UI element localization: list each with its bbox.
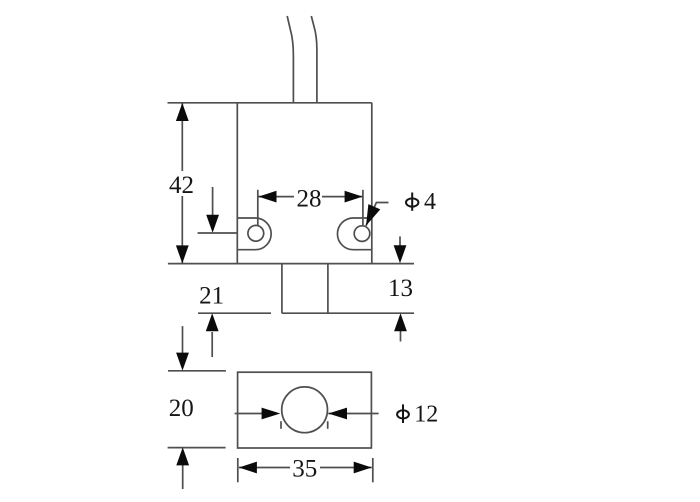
28 right arrow head [345, 191, 363, 203]
20 upper extension line [168, 370, 226, 372]
20 lower arrow tail [182, 465, 184, 489]
phi12 right arrow head [328, 408, 347, 420]
body top edge with 42-extension [168, 102, 372, 104]
phi4 leader [366, 203, 389, 226]
svg-text:35: 35 [292, 456, 317, 483]
bottom view circle phi12 [282, 387, 328, 433]
21 upper arrow head [206, 215, 219, 233]
bottom view rectangle [238, 372, 372, 448]
13 lower arrow head [394, 313, 407, 331]
cable [287, 16, 293, 102]
42 bottom arrow [176, 245, 189, 263]
28 dimension line left [259, 196, 295, 198]
35 dimension line left [239, 467, 290, 469]
left hole circle [248, 225, 264, 241]
20 lower extension line [168, 447, 226, 449]
right slot [337, 218, 371, 250]
phi12 tick right [327, 421, 329, 429]
35 left extension line [237, 458, 239, 482]
20 upper arrow head [176, 353, 189, 371]
28 left arrow head [259, 191, 277, 203]
phi4 arrow head [366, 204, 380, 226]
21 lower extension line [198, 312, 271, 314]
phi12 tick left [280, 421, 282, 429]
28 dimension line right [322, 196, 363, 198]
hole centerline extension [198, 232, 238, 234]
phi12 centerline right [328, 413, 378, 415]
svg-text:12: 12 [414, 402, 438, 428]
42 dimension line lower [181, 196, 183, 263]
block bottom edge extended right [282, 312, 414, 314]
svg-text:28: 28 [297, 186, 322, 213]
20 lower arrow head [176, 447, 189, 465]
42 dimension line upper [181, 103, 183, 171]
phi12 centerline left [235, 413, 262, 415]
svg-text:4: 4 [424, 189, 436, 215]
body bottom edge extended both sides [168, 263, 414, 265]
21 upper arrow tail [212, 187, 214, 218]
phi12 left arrow head [262, 408, 281, 420]
block left edge [281, 264, 283, 314]
phi symbol of phi12 [402, 404, 404, 423]
28 right extension line [362, 190, 364, 226]
21 lower arrow tail [211, 332, 213, 357]
phi symbol of phi4 [411, 193, 413, 211]
13 lower arrow tail [400, 331, 402, 342]
left slot [238, 218, 271, 250]
block right edge [327, 264, 329, 314]
body right edge [371, 103, 373, 264]
21 lower arrow head [206, 313, 219, 331]
body left edge [236, 103, 238, 264]
42 top arrow [176, 103, 189, 121]
right hole circle [354, 226, 370, 242]
35 left arrow head [239, 462, 257, 474]
13 upper arrow tail [399, 236, 401, 248]
svg-text:20: 20 [169, 395, 194, 422]
13 upper arrow head [394, 245, 407, 263]
35 right arrow head [354, 462, 372, 474]
20 upper arrow tail [182, 326, 184, 353]
svg-text:42: 42 [169, 172, 194, 199]
35 dimension line right [320, 467, 372, 469]
svg-text:21: 21 [199, 283, 224, 310]
28 left extension line [257, 190, 259, 225]
35 right extension line [372, 458, 374, 482]
svg-text:13: 13 [388, 275, 413, 302]
